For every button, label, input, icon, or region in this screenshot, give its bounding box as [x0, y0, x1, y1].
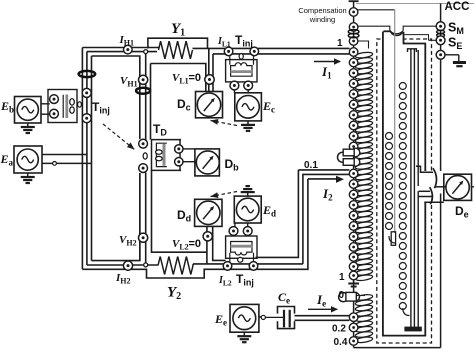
wire: top rail inner line turning down into VH1 sense — [92, 56, 140, 139]
wire: bottom rail inner line turning up into VH2 sense — [92, 173, 140, 261]
detector De meter — [446, 176, 469, 199]
ground Eb — [27, 123, 29, 127]
source Ec box — [235, 93, 262, 121]
dashed arrow Ed to Dd — [211, 192, 238, 197]
wire: TD to Db — [183, 148, 195, 150]
wire: compensation winding link to ACC (gray) — [356, 3, 474, 5]
shield: solid inner box left wall — [383, 32, 425, 336]
ground Ed (pointing up) — [247, 192, 249, 196]
ground Ec — [247, 121, 249, 125]
svg-text:=0: =0 — [189, 72, 202, 84]
current transformer TD top — [139, 139, 148, 148]
current transformer IH2 — [123, 261, 132, 270]
compensation lead down the middle — [394, 10, 396, 233]
source Ed — [236, 198, 259, 221]
svg-text:=0: =0 — [189, 238, 202, 250]
capacitor Ce plates — [283, 310, 285, 328]
wire: left bus middle vertical — [86, 52, 88, 265]
current transformer IL2 (right) — [249, 262, 258, 271]
main winding feedthrough dots — [349, 8, 358, 17]
clamp on ACC line — [437, 30, 445, 33]
small loop on rail between CTs — [239, 54, 243, 59]
transformer TD core bar — [163, 144, 166, 166]
transformer Tinj-b primary cup and humps — [62, 95, 65, 117]
wire: VL1 drop from rail upper line through CT to Dc — [208, 48, 210, 91]
source Ee — [233, 307, 256, 330]
clamp choke on left bus — [79, 71, 96, 77]
wire: bottom rail outer line with Y2 bypass bump — [82, 179, 308, 278]
main winding loops (upper section) — [355, 51, 373, 58]
current transformer IH1 — [124, 45, 133, 54]
detector Db meter — [196, 151, 219, 174]
ground Ea — [27, 173, 29, 177]
De tap: center line to De — [435, 186, 448, 188]
wire: VL2 sense loop — [152, 170, 207, 252]
transformer Tinj-c box — [226, 60, 257, 82]
resistor Y1 bypass bump — [148, 38, 208, 48]
wire: VH1 sense right line from junction — [145, 52, 147, 140]
switch SM — [436, 22, 445, 31]
wire: bottom rail middle line — [87, 264, 158, 266]
transformer TD box — [152, 140, 182, 171]
De tap: lower lines — [418, 190, 430, 192]
crossover arcs at winding entry — [383, 30, 390, 32]
detector Dc box — [196, 92, 223, 118]
detector Db box — [195, 149, 220, 176]
De tap: coax break upper arc — [433, 168, 437, 188]
source Ea box — [14, 146, 42, 173]
inner bars bottom cap — [405, 327, 421, 331]
shield: dashed box around secondary — [377, 39, 432, 343]
wire: left bus inner vertical — [91, 56, 93, 261]
detector Dc meter — [197, 93, 220, 116]
wire: VL2 drop Dd to rail through CT — [206, 226, 208, 264]
wire: Ea to bus lower — [42, 162, 92, 164]
current transformer Tinj-d secondary left — [229, 227, 238, 236]
current transformer VL1 — [205, 75, 214, 84]
wire: bottom rail of transformer — [354, 347, 441, 349]
current transformer Tinj-b secondary top — [50, 95, 59, 104]
svg-text:0: 0 — [339, 290, 345, 301]
current transformer VL2 — [203, 232, 212, 241]
current transformer Tinj-c secondary right — [244, 81, 253, 90]
current transformer IL2 (left) — [223, 262, 232, 271]
transformer Tinj-d box — [226, 236, 257, 258]
transformer Tinj-d core bar — [230, 245, 252, 248]
current transformer TD secondary bottom — [175, 158, 183, 166]
tap block 0.1 — [351, 148, 360, 157]
main winding loops (lower section) — [355, 294, 373, 301]
transformer Tinj-b box — [48, 90, 77, 123]
wire: VL1 sense loop (lower-rail detour) — [151, 64, 206, 140]
wire: comp. winding to inner assembly — [358, 9, 395, 11]
De tap: upper line with hook — [416, 166, 433, 172]
svg-text:ACC: ACC — [445, 1, 470, 13]
wire: rail from Y1 to column upper line — [193, 47, 350, 49]
dashed arrow Ec to Dc — [211, 121, 238, 126]
transformer Tinj-b core bar — [65, 95, 68, 119]
wire: VL1 drop from rail lower corner to Dc — [212, 54, 214, 92]
source Ee box — [230, 304, 259, 332]
svg-text:0.2: 0.2 — [332, 324, 346, 335]
dashed arrow Tinj to TD — [103, 124, 135, 150]
termination at tap 1 (bottom) — [353, 280, 355, 283]
inner winding column B — [399, 83, 406, 90]
small loop on rail between CTs (bottom) — [238, 257, 243, 262]
wire: Ec to transformer stubs — [233, 90, 235, 93]
source Ed box — [234, 196, 261, 223]
current transformer on bus (Tinj-b top) — [82, 88, 91, 97]
label I1 arrow — [314, 61, 340, 63]
wire: SE line over shield top — [405, 35, 429, 41]
ground at SE — [445, 54, 459, 56]
small loop between Tinj-b and bus — [78, 102, 82, 107]
node: junction circle on rail middle line — [144, 50, 148, 54]
feedthrough below SE — [436, 50, 445, 59]
wire: 0.1 rail corner middle — [303, 174, 350, 264]
svg-text:Compensation: Compensation — [298, 6, 346, 15]
svg-text:0.4: 0.4 — [334, 337, 348, 348]
detector De box — [444, 174, 472, 200]
current transformer Tinj-c secondary left — [230, 81, 239, 90]
resistor Y2 — [158, 257, 193, 275]
wire: Eb to Tinj-b — [41, 103, 50, 105]
svg-text:0.1: 0.1 — [304, 160, 318, 171]
switch SE — [436, 36, 445, 45]
wire: VH sense pair TD to bottom rail — [139, 173, 141, 261]
source Eb — [17, 99, 38, 120]
wire: Ed to transformer stubs — [234, 223, 236, 227]
detector Dd box — [195, 199, 222, 226]
current transformer Tinj-b secondary bottom — [50, 109, 59, 118]
wire: ACC vertical line — [440, 4, 442, 172]
svg-text:winding: winding — [309, 15, 335, 24]
wire: SE to shield box — [429, 39, 437, 41]
clamp choke on VH sense pair — [136, 88, 150, 94]
label Ie arrow — [308, 308, 337, 310]
svg-text:1: 1 — [337, 38, 343, 49]
clamp choke on main column — [348, 30, 359, 34]
wire: main column conductor — [353, 2, 355, 348]
wire: rail lower line from VL1 corner to column — [213, 53, 350, 55]
transformer TD winding cup — [156, 143, 166, 166]
wire: bottom rail middle from Y2 to corner — [193, 263, 303, 265]
inner bars — [410, 49, 412, 327]
source Ea — [17, 149, 38, 170]
wire: VL2 drop Dd to stub corner — [213, 226, 226, 260]
tap block 0 — [351, 293, 360, 302]
wire: Ce center lead — [266, 316, 285, 318]
current transformer Tinj-d secondary right — [243, 227, 252, 236]
wire: Ee to Ce — [259, 316, 266, 318]
detector Dd meter — [197, 201, 220, 224]
node: small circle before Ce — [261, 315, 265, 319]
source Eb box — [15, 97, 42, 124]
node: small circle on Ea lower wire — [53, 162, 57, 166]
current transformer TD bottom — [139, 164, 148, 173]
wire: comp. winding to SM with shield crossover jog — [358, 26, 390, 30]
wire: line from Tinj-d box to riser — [256, 170, 299, 258]
shield: solid inner box right/top — [402, 33, 425, 171]
inner winding column A — [386, 133, 393, 140]
wire: compensation winding top cap — [349, 0, 359, 2]
wire: De stub to edge — [472, 186, 474, 188]
source Ec — [237, 96, 260, 119]
current transformer IL1 (right) — [250, 47, 259, 56]
current transformer IL1 (left) — [224, 47, 233, 56]
capacitor Ce bypass bumps — [278, 307, 295, 314]
current transformer VH2 — [139, 233, 148, 242]
current transformer on bus (Tinj-b bottom) — [82, 114, 91, 123]
transformer Tinj-d primary cup and humps — [230, 253, 254, 262]
resistor Y1 — [159, 41, 193, 59]
ground Ee — [243, 332, 245, 336]
small loop on sense pair — [143, 153, 147, 159]
wire: Ce to column pair — [295, 315, 350, 317]
wire: top rail middle line — [87, 51, 157, 53]
wire: 0.1 rail corner upper — [298, 169, 349, 171]
wire: Ea to bus upper — [42, 154, 87, 156]
svg-text:1: 1 — [339, 272, 345, 283]
wire: stub from tap-1 feedthrough — [358, 41, 369, 49]
wire: top rail outer line (IH1 path) — [82, 47, 158, 49]
wire: left bus outer vertical — [81, 48, 83, 270]
transformer Tinj-c primary cup and humps — [230, 56, 254, 65]
current transformer VH1 — [139, 75, 148, 84]
node: junction circle on bottom rail middle line — [144, 263, 148, 267]
current transformer TD secondary top — [175, 145, 183, 153]
transformer Tinj-c core bar — [230, 70, 252, 73]
wire: I2 line with arrow — [308, 178, 337, 180]
inner bars (screen leads) top cap — [408, 49, 417, 52]
